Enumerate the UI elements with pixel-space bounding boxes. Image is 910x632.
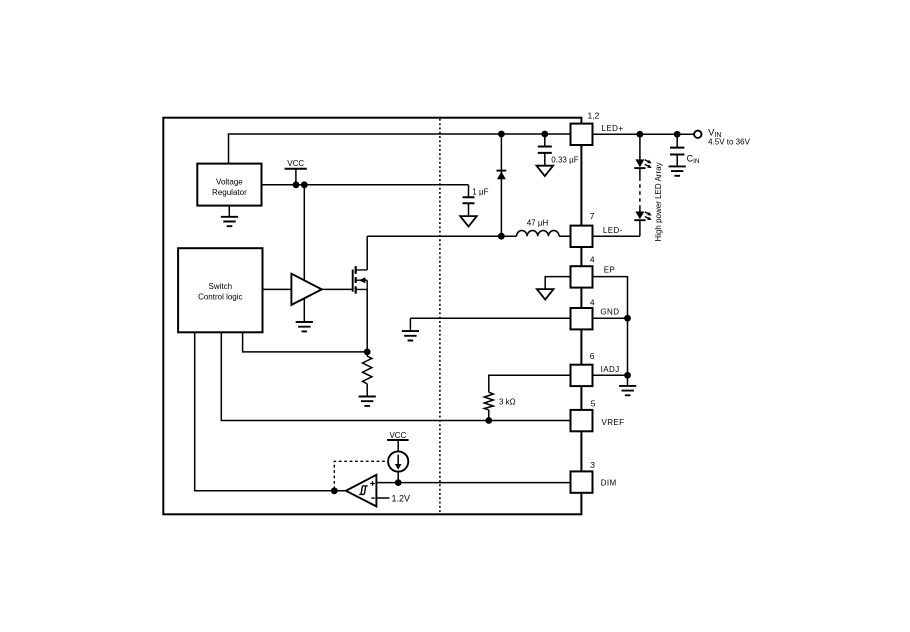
svg-text:3: 3 xyxy=(590,460,595,470)
svg-text:Regulator: Regulator xyxy=(212,188,247,197)
svg-text:3 kΩ: 3 kΩ xyxy=(499,397,516,406)
svg-text:4: 4 xyxy=(590,254,595,264)
svg-text:5: 5 xyxy=(591,399,596,409)
svg-text:6: 6 xyxy=(590,351,595,361)
svg-text:VCC: VCC xyxy=(389,431,406,440)
svg-text:Control logic: Control logic xyxy=(198,292,242,301)
svg-text:VCC: VCC xyxy=(287,159,304,168)
svg-text:1.2V: 1.2V xyxy=(392,493,411,503)
svg-text:Voltage: Voltage xyxy=(216,178,243,187)
svg-text:7: 7 xyxy=(590,211,595,221)
svg-text:47 µH: 47 µH xyxy=(527,219,549,228)
svg-text:1,2: 1,2 xyxy=(588,111,600,121)
svg-text:GND: GND xyxy=(600,308,619,317)
svg-text:IADJ: IADJ xyxy=(601,365,620,374)
svg-text:DIM: DIM xyxy=(601,479,617,488)
svg-text:LED+: LED+ xyxy=(602,124,624,133)
svg-text:VREF: VREF xyxy=(602,418,625,427)
svg-text:4.5V to 36V: 4.5V to 36V xyxy=(708,137,750,146)
svg-text:LED-: LED- xyxy=(603,226,623,235)
svg-text:EP: EP xyxy=(604,266,615,275)
svg-text:Switch: Switch xyxy=(209,282,233,291)
svg-text:1 µF: 1 µF xyxy=(472,187,488,196)
svg-text:High power LED Array: High power LED Array xyxy=(654,162,663,241)
svg-text:0.33 µF: 0.33 µF xyxy=(551,156,578,165)
svg-text:4: 4 xyxy=(590,298,595,308)
